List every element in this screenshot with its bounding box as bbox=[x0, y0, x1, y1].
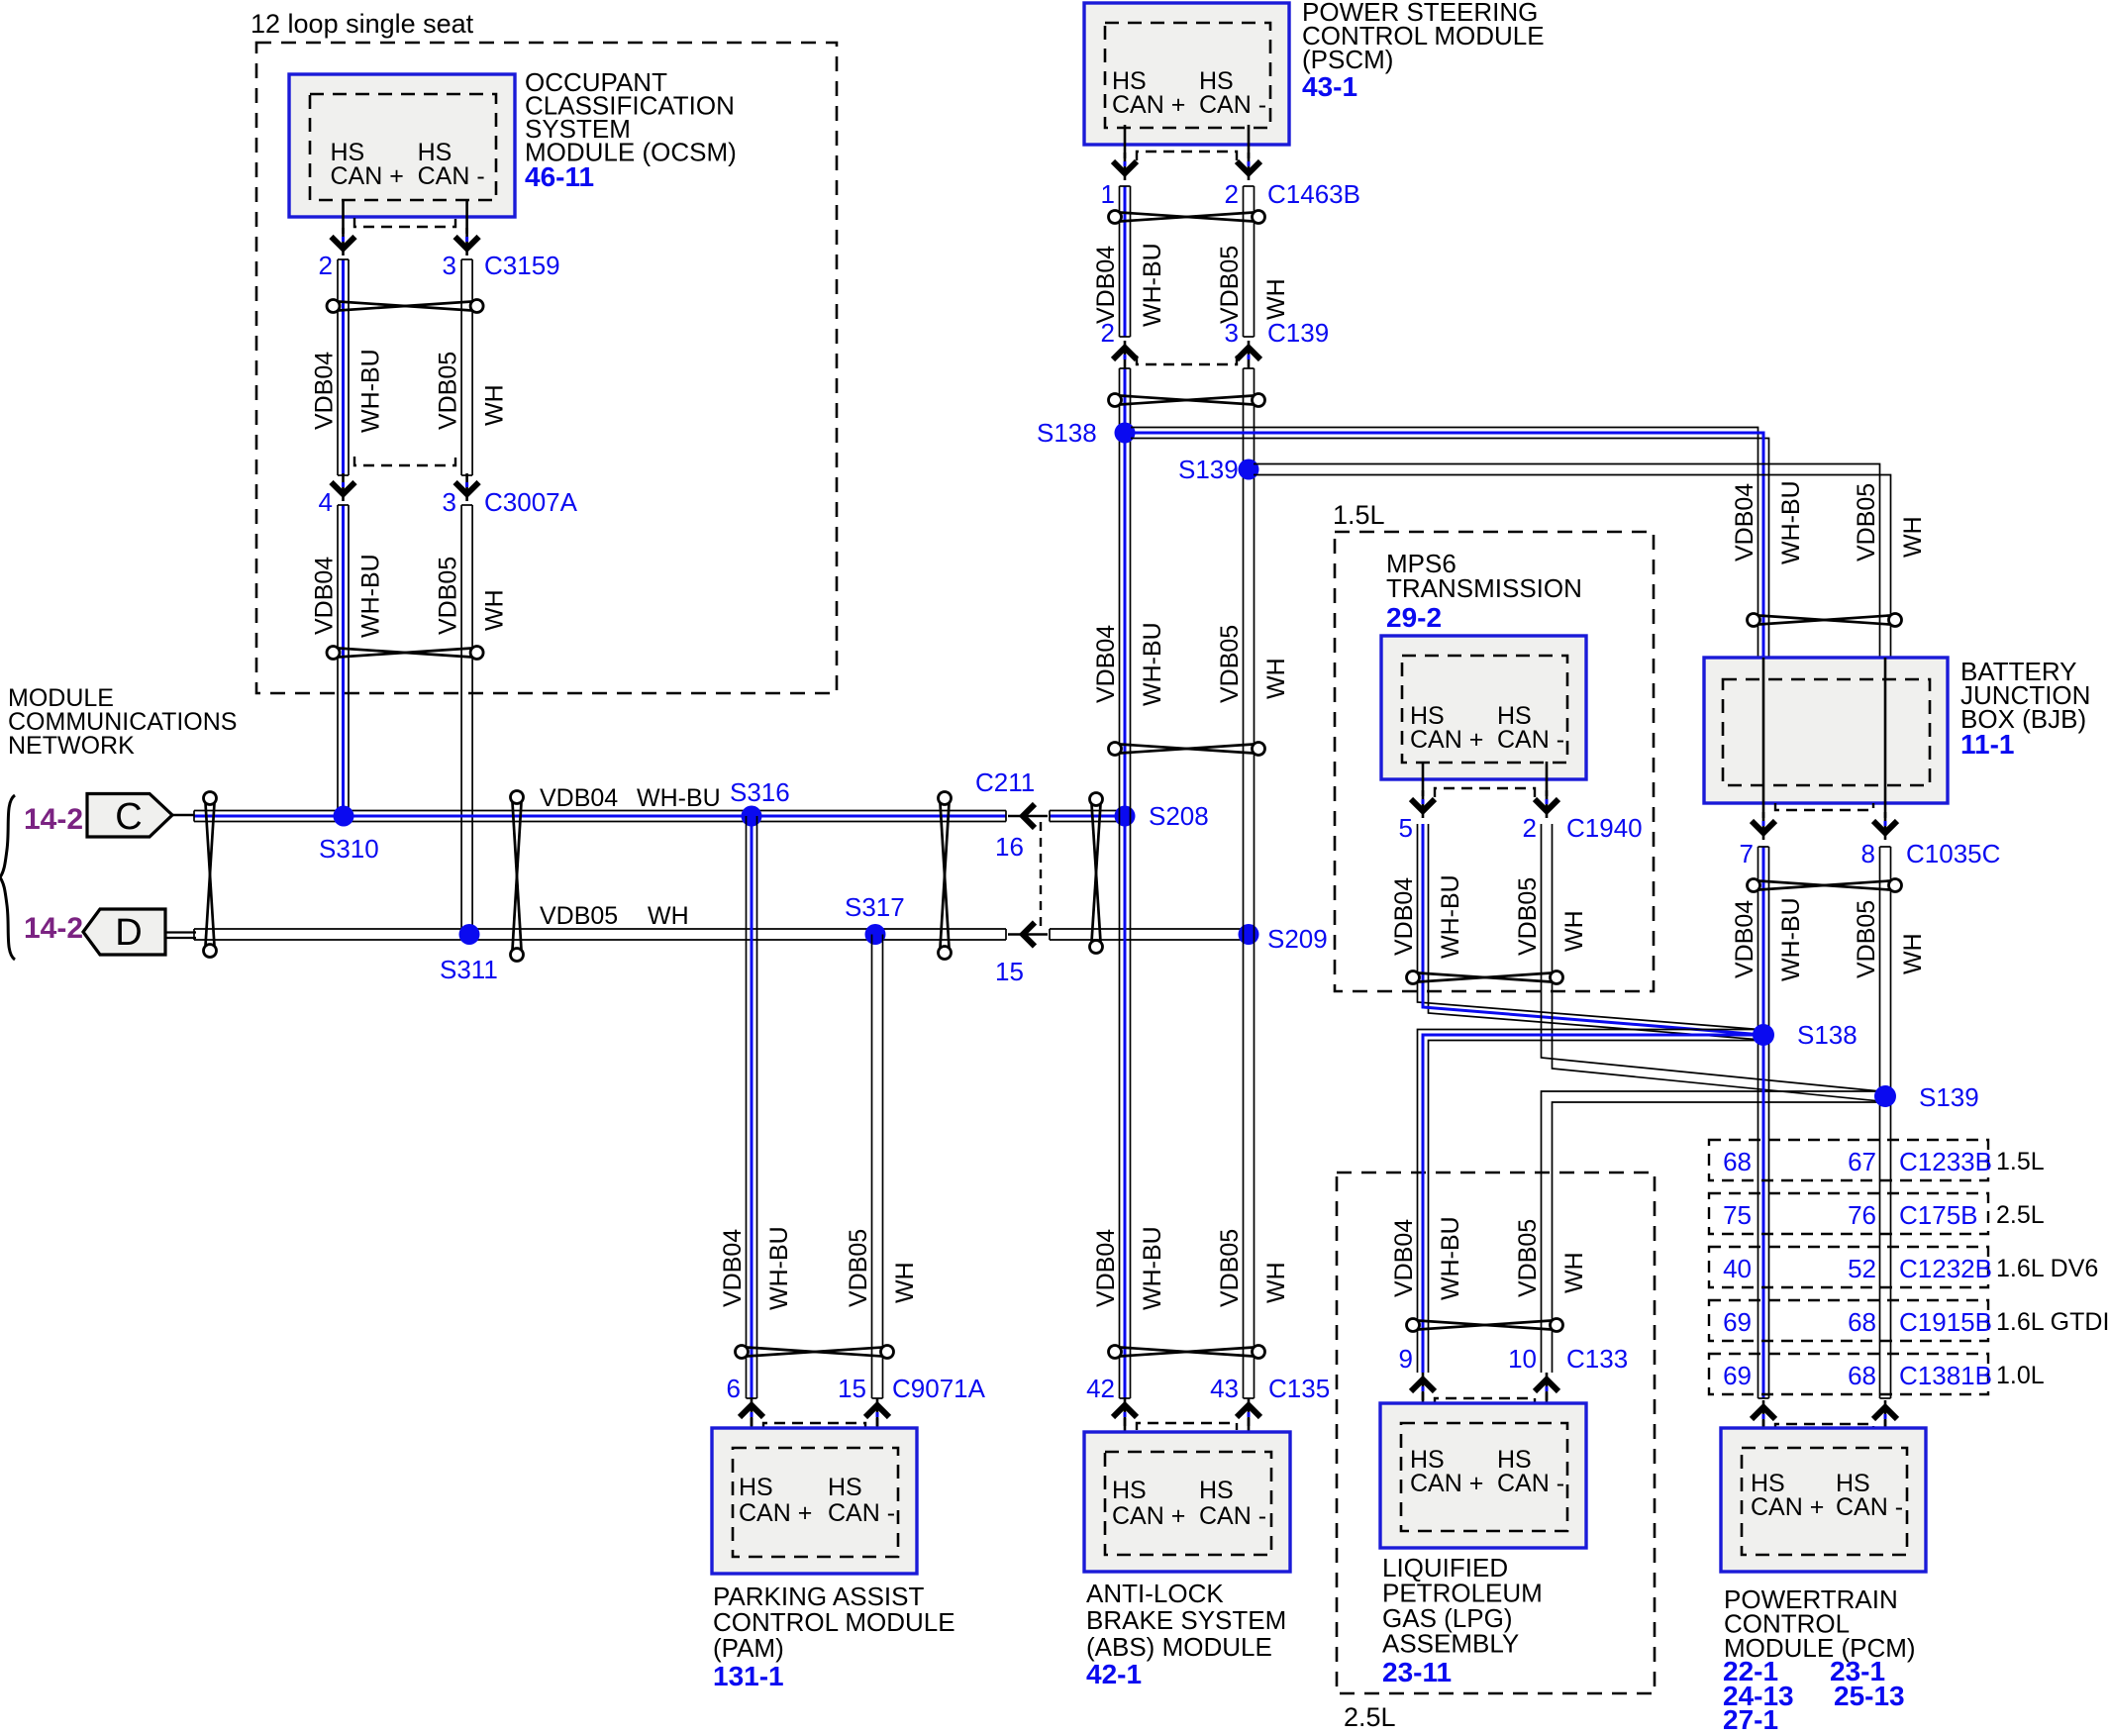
svg-text:WH: WH bbox=[1899, 516, 1927, 558]
svg-text:(PSCM): (PSCM) bbox=[1302, 45, 1393, 74]
wire stub LPG right bbox=[1546, 1392, 1549, 1423]
svg-text:WH: WH bbox=[648, 902, 689, 930]
junction S208 bbox=[1115, 806, 1136, 827]
svg-text:C1381B: C1381B bbox=[1899, 1361, 1992, 1390]
BJB internal wire left bbox=[1762, 658, 1765, 818]
svg-text:2: 2 bbox=[1225, 179, 1239, 209]
svg-text:WH: WH bbox=[481, 384, 509, 426]
svg-text:8: 8 bbox=[1861, 839, 1875, 868]
svg-text:WH-BU: WH-BU bbox=[1437, 1216, 1464, 1300]
svg-text:2.5L: 2.5L bbox=[1344, 1702, 1396, 1731]
svg-text:VDB04: VDB04 bbox=[1092, 246, 1120, 324]
svg-text:27-1: 27-1 bbox=[1723, 1704, 1778, 1731]
svg-text:CAN +: CAN + bbox=[331, 162, 404, 190]
svg-text:40: 40 bbox=[1723, 1254, 1752, 1283]
svg-text:C1232B: C1232B bbox=[1899, 1254, 1992, 1283]
wire VDB05 WH C139 to S139 bbox=[1244, 368, 1255, 935]
svg-text:C3007A: C3007A bbox=[484, 487, 578, 517]
svg-text:14-2: 14-2 bbox=[24, 803, 83, 836]
svg-text:WH-BU: WH-BU bbox=[357, 349, 385, 433]
svg-text:HS: HS bbox=[1112, 1477, 1147, 1504]
svg-text:S311: S311 bbox=[440, 955, 498, 984]
wire VDB05 WH BJB to PCM bbox=[1880, 847, 1891, 1398]
PCM connector row C1915B bbox=[1709, 1300, 1988, 1341]
svg-text:VDB05: VDB05 bbox=[845, 1229, 872, 1307]
svg-text:VDB05: VDB05 bbox=[435, 352, 462, 430]
module OCSM box bbox=[289, 74, 515, 217]
module LPG box bbox=[1380, 1403, 1586, 1548]
svg-text:WH-BU: WH-BU bbox=[1139, 243, 1166, 327]
svg-text:9: 9 bbox=[1399, 1344, 1413, 1374]
junction S209 bbox=[1239, 924, 1259, 945]
svg-text:1.6L DV6: 1.6L DV6 bbox=[1996, 1255, 2098, 1282]
svg-text:68: 68 bbox=[1848, 1361, 1876, 1390]
wire stub MPS6 right bbox=[1546, 762, 1549, 796]
connector C139 arrow pin3 bbox=[1237, 341, 1260, 368]
svg-text:43-1: 43-1 bbox=[1302, 71, 1357, 102]
svg-text:3: 3 bbox=[443, 487, 456, 517]
svg-text:68: 68 bbox=[1723, 1147, 1752, 1176]
svg-text:1: 1 bbox=[1101, 179, 1115, 209]
twisted pair symbol BJB upper bbox=[1748, 614, 1902, 627]
wire stub OCSM CAN+ pin bbox=[342, 200, 345, 234]
svg-text:1.0L: 1.0L bbox=[1996, 1362, 2045, 1389]
PCM connector row C1381B bbox=[1709, 1354, 1988, 1394]
twisted pair symbol bus x954 bbox=[939, 792, 952, 960]
wire VDB05 WH S209 to ABS bbox=[1244, 935, 1255, 1399]
svg-text:52: 52 bbox=[1848, 1254, 1876, 1283]
svg-text:11-1: 11-1 bbox=[1960, 729, 2015, 760]
svg-text:WH-BU: WH-BU bbox=[1777, 897, 1805, 981]
svg-text:(PAM): (PAM) bbox=[713, 1633, 784, 1663]
bus wire segment C211 to S209 bbox=[1050, 929, 1249, 940]
connector C3007A arrow pin3 bbox=[455, 473, 479, 501]
svg-text:C1035C: C1035C bbox=[1906, 839, 2000, 868]
svg-text:CAN +: CAN + bbox=[1410, 1470, 1483, 1497]
svg-text:VDB05: VDB05 bbox=[1216, 625, 1244, 703]
svg-text:CAN +: CAN + bbox=[1112, 91, 1185, 119]
wire stub PSCM right bbox=[1248, 125, 1251, 158]
svg-text:WH: WH bbox=[481, 589, 509, 631]
svg-text:WH: WH bbox=[1560, 1252, 1588, 1293]
connector C139 arrow pin2 bbox=[1113, 341, 1137, 368]
svg-text:42: 42 bbox=[1086, 1374, 1115, 1403]
junction S316 bbox=[742, 806, 762, 827]
svg-text:CAN -: CAN - bbox=[1199, 1502, 1266, 1530]
twisted pair symbol below C139 bbox=[1109, 394, 1265, 407]
svg-text:CAN +: CAN + bbox=[739, 1499, 812, 1527]
junction S138 right bbox=[1753, 1024, 1774, 1046]
svg-text:C135: C135 bbox=[1268, 1374, 1330, 1403]
svg-text:69: 69 bbox=[1723, 1361, 1752, 1390]
svg-text:12 loop single seat: 12 loop single seat bbox=[251, 9, 474, 39]
svg-text:7: 7 bbox=[1740, 839, 1754, 868]
dashed harness box 1.5L MPS6 bbox=[1335, 532, 1654, 991]
PCM connector row C175B bbox=[1709, 1193, 1988, 1234]
svg-text:C3159: C3159 bbox=[484, 251, 560, 280]
svg-text:WH: WH bbox=[1899, 933, 1927, 974]
module MPS6 box bbox=[1381, 636, 1586, 779]
svg-text:VDB04: VDB04 bbox=[540, 784, 618, 812]
svg-text:C1915B: C1915B bbox=[1899, 1307, 1992, 1337]
connector C211 arrow pin16 bbox=[1008, 804, 1048, 828]
connector C1035C arrow pin8 bbox=[1873, 812, 1897, 840]
svg-text:VDB04: VDB04 bbox=[1390, 877, 1418, 956]
svg-text:S317: S317 bbox=[845, 892, 905, 922]
svg-text:WH-BU: WH-BU bbox=[637, 784, 721, 812]
connector PCM arrow right bbox=[1873, 1400, 1897, 1428]
svg-text:CAN +: CAN + bbox=[1112, 1502, 1185, 1530]
svg-text:VDB04: VDB04 bbox=[311, 352, 339, 430]
junction S310 bbox=[334, 806, 354, 827]
PCM connector row C1233B bbox=[1709, 1140, 1988, 1180]
svg-text:S310: S310 bbox=[319, 834, 379, 864]
connector C3007A arrow pin4 bbox=[332, 473, 355, 501]
twisted pair symbol ABS mid bbox=[1109, 743, 1265, 756]
wire VDB04 WH-BU OCSM upper bbox=[338, 259, 349, 475]
connector C139 bracket bbox=[1137, 356, 1237, 364]
svg-text:46-11: 46-11 bbox=[525, 161, 594, 192]
svg-text:WH: WH bbox=[1560, 910, 1588, 952]
svg-text:ANTI-LOCK: ANTI-LOCK bbox=[1086, 1579, 1224, 1608]
wire VDB05 WH OCSM lower bbox=[461, 505, 472, 936]
svg-text:75: 75 bbox=[1723, 1200, 1752, 1230]
svg-text:WH: WH bbox=[1262, 278, 1290, 320]
svg-text:WH-BU: WH-BU bbox=[765, 1226, 793, 1310]
junction S139 right bbox=[1874, 1085, 1896, 1107]
wire stub PSCM left bbox=[1124, 125, 1127, 158]
svg-text:CAN +: CAN + bbox=[1410, 726, 1483, 754]
svg-text:ASSEMBLY: ASSEMBLY bbox=[1382, 1629, 1519, 1659]
BJB internal wire right bbox=[1884, 658, 1887, 818]
svg-text:VDB05: VDB05 bbox=[540, 902, 618, 930]
svg-text:5: 5 bbox=[1399, 813, 1413, 843]
svg-text:43: 43 bbox=[1210, 1374, 1239, 1403]
connector C3159 bracket bbox=[354, 218, 455, 227]
svg-text:16: 16 bbox=[995, 832, 1024, 862]
svg-text:WH-BU: WH-BU bbox=[1777, 480, 1805, 564]
svg-text:VDB05: VDB05 bbox=[1514, 877, 1542, 956]
connector PCM arrow left bbox=[1752, 1400, 1775, 1428]
twisted pair symbol PAM bbox=[736, 1346, 894, 1359]
svg-text:14-2: 14-2 bbox=[24, 912, 83, 945]
wire stub MPS6 left bbox=[1422, 762, 1425, 796]
twisted pair symbol MPS6 bbox=[1407, 971, 1563, 984]
svg-text:C211: C211 bbox=[975, 767, 1035, 797]
svg-text:4: 4 bbox=[319, 487, 333, 517]
wire stub ABS right bbox=[1248, 1418, 1251, 1454]
wire VDB05 WH S139 to LPG bbox=[1542, 1091, 1886, 1373]
svg-text:15: 15 bbox=[838, 1374, 866, 1403]
module PCM box bbox=[1721, 1428, 1926, 1572]
svg-text:2: 2 bbox=[1101, 318, 1115, 348]
svg-text:VDB04: VDB04 bbox=[1092, 625, 1120, 703]
svg-text:WH-BU: WH-BU bbox=[1437, 874, 1464, 959]
wire VDB04 WH-BU BJB to PCM bbox=[1758, 847, 1769, 1398]
wire VDB05 WH PSCM upper bbox=[1244, 186, 1255, 337]
svg-text:HS: HS bbox=[1199, 1477, 1234, 1504]
connector C1940 arrow pin5 bbox=[1411, 790, 1435, 818]
svg-text:VDB04: VDB04 bbox=[311, 557, 339, 635]
wire stub PAM left bbox=[751, 1418, 753, 1450]
svg-text:3: 3 bbox=[1225, 318, 1239, 348]
connector flag C bbox=[87, 794, 172, 838]
connector C211 arrow pin15 bbox=[1008, 923, 1048, 947]
connector PCM bracket bbox=[1775, 1424, 1873, 1431]
twisted pair symbol OCSM lower bbox=[327, 647, 483, 660]
svg-text:C: C bbox=[115, 796, 142, 838]
svg-text:C9071A: C9071A bbox=[892, 1374, 986, 1403]
svg-text:2: 2 bbox=[1523, 813, 1537, 843]
svg-text:D: D bbox=[115, 912, 142, 954]
svg-text:69: 69 bbox=[1723, 1307, 1752, 1337]
svg-text:CAN -: CAN - bbox=[1199, 91, 1266, 119]
twisted pair symbol bus x1107 bbox=[1090, 793, 1103, 954]
wire VDB05 WH S317 to PAM bbox=[872, 935, 883, 1399]
module PSCM box bbox=[1084, 3, 1289, 145]
svg-text:VDB05: VDB05 bbox=[1216, 246, 1244, 324]
connector C3007A bracket bbox=[354, 457, 455, 465]
svg-text:68: 68 bbox=[1848, 1307, 1876, 1337]
module PAM box bbox=[712, 1428, 917, 1574]
connector C135 arrow pin42 bbox=[1113, 1398, 1137, 1426]
wire stub OCSM CAN- pin bbox=[465, 200, 468, 234]
wire VDB05 WH MPS6 to S139 bbox=[1542, 824, 1881, 1091]
dashed harness box 2.5L LPG bbox=[1337, 1173, 1655, 1693]
wire VDB04 WH-BU OCSM lower bbox=[338, 505, 349, 815]
junction S311 bbox=[459, 924, 480, 945]
twisted pair symbol PSCM upper bbox=[1109, 211, 1265, 224]
bus wire VDB05 WH lower horizontal bbox=[194, 929, 1006, 940]
svg-text:67: 67 bbox=[1848, 1147, 1876, 1176]
connector C135 bracket bbox=[1137, 1423, 1237, 1430]
junction S317 bbox=[865, 924, 886, 945]
PCM connector row C1232B bbox=[1709, 1247, 1988, 1287]
svg-text:WH-BU: WH-BU bbox=[1139, 622, 1166, 706]
svg-text:VDB04: VDB04 bbox=[719, 1229, 747, 1307]
wire stub PAM right bbox=[876, 1418, 879, 1450]
svg-text:S209: S209 bbox=[1267, 924, 1328, 954]
module ABS box bbox=[1084, 1432, 1290, 1572]
svg-text:VDB04: VDB04 bbox=[1092, 1229, 1120, 1307]
connector C1463B arrow pin1 bbox=[1113, 153, 1137, 180]
connector C1035C bracket bbox=[1775, 803, 1873, 810]
connector C1940 arrow pin2 bbox=[1535, 790, 1558, 818]
wire VDB04 WH-BU PSCM upper bbox=[1120, 186, 1131, 337]
svg-text:131-1: 131-1 bbox=[713, 1661, 784, 1691]
wire VDB04 WH-BU C139 to S138 bbox=[1120, 368, 1131, 816]
svg-text:C1463B: C1463B bbox=[1267, 179, 1360, 209]
connector flag D bbox=[83, 909, 165, 955]
svg-text:HS: HS bbox=[739, 1474, 773, 1501]
wire VDB05 WH OCSM upper bbox=[461, 259, 472, 475]
svg-text:HS: HS bbox=[828, 1474, 862, 1501]
connector C1463B bracket bbox=[1137, 152, 1237, 160]
svg-text:C133: C133 bbox=[1566, 1344, 1628, 1374]
svg-text:C1233B: C1233B bbox=[1899, 1147, 1992, 1176]
svg-text:2.5L: 2.5L bbox=[1996, 1201, 2045, 1229]
bus wire segment C211 to S208 bbox=[1050, 811, 1125, 822]
svg-text:1.5L: 1.5L bbox=[1996, 1148, 2045, 1175]
svg-text:CAN -: CAN - bbox=[1497, 1470, 1564, 1497]
wire VDB04 WH-BU S138 to BJB bbox=[1131, 428, 1758, 659]
svg-text:1.5L: 1.5L bbox=[1333, 500, 1385, 530]
wire VDB05 WH S139 to BJB bbox=[1254, 464, 1880, 659]
twisted pair symbol ABS lower bbox=[1109, 1346, 1265, 1359]
wire stub ABS left bbox=[1124, 1418, 1127, 1454]
svg-text:VDB05: VDB05 bbox=[1216, 1229, 1244, 1307]
left brace bbox=[0, 795, 15, 960]
svg-text:1.6L GTDI: 1.6L GTDI bbox=[1996, 1308, 2109, 1336]
svg-text:25-13: 25-13 bbox=[1834, 1681, 1905, 1711]
wire VDB04 WH-BU S208 to ABS bbox=[1120, 816, 1131, 1398]
wire stub LPG left bbox=[1422, 1392, 1425, 1423]
wire stub PCM left bbox=[1762, 1420, 1765, 1446]
svg-text:29-2: 29-2 bbox=[1386, 602, 1442, 633]
svg-text:42-1: 42-1 bbox=[1086, 1659, 1142, 1689]
connector C1035C arrow pin7 bbox=[1752, 812, 1775, 840]
twisted pair symbol BJB lower bbox=[1748, 879, 1902, 892]
svg-text:TRANSMISSION: TRANSMISSION bbox=[1386, 573, 1582, 603]
connector C3159 arrow pin2 bbox=[332, 228, 355, 255]
twisted pair symbol LPG bbox=[1407, 1319, 1563, 1332]
wire VDB04 WH-BU S138 to LPG bbox=[1418, 1030, 1764, 1374]
svg-text:VDB04: VDB04 bbox=[1731, 900, 1758, 978]
connector C9071A bracket bbox=[763, 1423, 865, 1430]
wire stub PCM right bbox=[1884, 1420, 1887, 1446]
connector C9071A arrow pin15 bbox=[865, 1398, 889, 1426]
junction S139 left bbox=[1239, 460, 1259, 480]
svg-text:WH: WH bbox=[1262, 658, 1290, 699]
svg-text:CAN -: CAN - bbox=[418, 162, 485, 190]
svg-text:VDB04: VDB04 bbox=[1390, 1219, 1418, 1297]
svg-text:S139: S139 bbox=[1178, 455, 1239, 484]
svg-text:C139: C139 bbox=[1267, 318, 1329, 348]
connector C135 arrow pin43 bbox=[1237, 1398, 1260, 1426]
svg-text:S138: S138 bbox=[1797, 1020, 1858, 1050]
svg-text:NETWORK: NETWORK bbox=[8, 732, 135, 760]
module BJB box bbox=[1704, 658, 1948, 803]
svg-text:VDB05: VDB05 bbox=[1514, 1219, 1542, 1297]
connector C133 arrow pin10 bbox=[1535, 1373, 1558, 1400]
svg-text:15: 15 bbox=[995, 957, 1024, 986]
svg-text:VDB05: VDB05 bbox=[1853, 900, 1880, 978]
wire VDB04 WH-BU MPS6 to S138 bbox=[1418, 824, 1759, 1030]
connector C3159 arrow pin3 bbox=[455, 228, 479, 255]
svg-text:76: 76 bbox=[1848, 1200, 1876, 1230]
svg-text:23-11: 23-11 bbox=[1382, 1657, 1452, 1687]
twisted pair symbol bus x522 bbox=[511, 791, 524, 962]
svg-text:VDB05: VDB05 bbox=[435, 557, 462, 635]
connector C211 dashed link bbox=[1040, 822, 1042, 929]
svg-text:6: 6 bbox=[727, 1374, 741, 1403]
svg-text:C1940: C1940 bbox=[1566, 813, 1643, 843]
dashed harness box: 12 loop single seat bbox=[256, 43, 837, 693]
svg-text:S138: S138 bbox=[1037, 418, 1097, 448]
svg-text:10: 10 bbox=[1508, 1344, 1537, 1374]
svg-text:3: 3 bbox=[443, 251, 456, 280]
connector C133 bracket bbox=[1435, 1398, 1535, 1405]
connector C133 arrow pin9 bbox=[1411, 1373, 1435, 1400]
svg-text:VDB05: VDB05 bbox=[1853, 483, 1880, 562]
svg-text:(ABS) MODULE: (ABS) MODULE bbox=[1086, 1632, 1272, 1662]
svg-text:S139: S139 bbox=[1919, 1082, 1979, 1112]
svg-text:WH: WH bbox=[1262, 1262, 1290, 1303]
svg-text:CAN -: CAN - bbox=[1836, 1493, 1903, 1521]
svg-text:S208: S208 bbox=[1149, 801, 1209, 831]
connector C1940 bracket bbox=[1435, 788, 1535, 797]
twisted pair symbol OCSM upper bbox=[327, 300, 483, 313]
svg-text:WH-BU: WH-BU bbox=[357, 554, 385, 638]
svg-text:WH-BU: WH-BU bbox=[1139, 1226, 1166, 1310]
connector C1463B arrow pin2 bbox=[1237, 153, 1260, 180]
svg-text:BRAKE SYSTEM: BRAKE SYSTEM bbox=[1086, 1605, 1286, 1635]
wire VDB04 WH-BU S316 to PAM bbox=[747, 816, 757, 1398]
svg-text:C175B: C175B bbox=[1899, 1200, 1978, 1230]
svg-text:WH: WH bbox=[891, 1262, 919, 1303]
svg-text:VDB04: VDB04 bbox=[1731, 483, 1758, 562]
svg-text:CAN -: CAN - bbox=[1497, 726, 1564, 754]
twisted pair symbol bus x208 bbox=[204, 792, 217, 958]
junction S138 left bbox=[1115, 423, 1136, 444]
bus wire VDB04 WH-BU upper horizontal bbox=[194, 811, 1006, 822]
svg-text:2: 2 bbox=[319, 251, 333, 280]
svg-text:S316: S316 bbox=[730, 777, 790, 807]
svg-text:CAN +: CAN + bbox=[1751, 1493, 1824, 1521]
svg-text:CAN -: CAN - bbox=[828, 1499, 895, 1527]
connector C9071A arrow pin6 bbox=[740, 1398, 763, 1426]
